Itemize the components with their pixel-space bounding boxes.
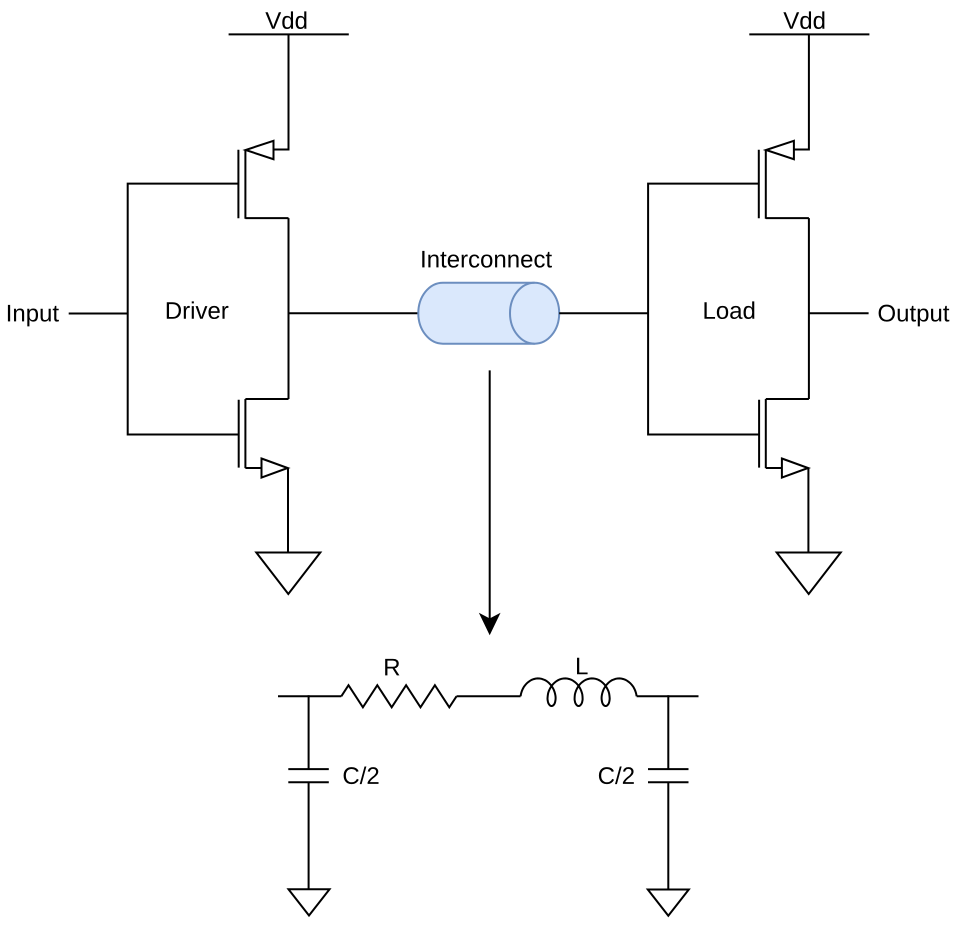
wire Input lead: [69, 313, 128, 315]
capacitor C1 (left C/2): [288, 769, 329, 782]
interconnect cylinder: [418, 283, 559, 344]
label Vdd (driver side): [265, 11, 306, 29]
wire load output node (M3 drain to M4 drain): [808, 218, 810, 399]
wire capacitor C2 to ground: [667, 782, 669, 889]
label Interconnect: [422, 251, 552, 268]
wire right node to capacitor C2: [667, 695, 669, 769]
capacitor C2 (right C/2): [648, 769, 689, 782]
wire load output lead: [809, 312, 869, 314]
transistor M4 (NMOS, load): [759, 399, 809, 478]
wire driver output to interconnect: [289, 312, 419, 314]
label R: [385, 659, 399, 676]
resistor R: [341, 685, 456, 707]
wire Vdd rail to PMOS M3 source: [794, 34, 809, 149]
label Vdd (load side): [783, 11, 824, 29]
wire right node of RLC: [637, 695, 699, 697]
inductor L: [521, 678, 637, 706]
wire Vdd rail to PMOS M1 source: [274, 34, 289, 149]
label Driver: [167, 301, 229, 319]
wire capacitor C1 to ground: [308, 782, 310, 889]
wire driver output node (M1 drain to M2 drain): [288, 218, 290, 399]
ground (below C1): [289, 889, 330, 915]
wire M2 source to ground: [287, 468, 289, 553]
arrow interconnect to RLC model: [481, 370, 499, 633]
label Load: [704, 301, 754, 319]
wire resistor to inductor: [457, 695, 521, 697]
ground (load side): [777, 553, 841, 595]
wire interconnect to load: [559, 312, 648, 314]
wire driver input gate loop: [128, 184, 239, 435]
wire left node to capacitor C1: [308, 695, 310, 769]
transistor M1 (PMOS, driver): [238, 141, 288, 219]
label C/2 (right): [599, 767, 634, 785]
Vdd rail (driver side): [229, 33, 349, 35]
transistor M2 (NMOS, driver): [239, 399, 289, 478]
transistor M3 (PMOS, load): [759, 141, 809, 219]
wire left node of RLC: [278, 695, 341, 697]
label Output: [879, 305, 950, 327]
ground (below C2): [648, 890, 689, 916]
label Input: [8, 305, 59, 326]
label L: [577, 658, 588, 675]
Vdd rail (load side): [749, 33, 869, 35]
wire load input gate loop: [648, 184, 759, 435]
ground (driver side): [256, 553, 320, 595]
wire M4 source to ground: [807, 468, 809, 553]
label C/2 (left): [344, 767, 379, 785]
